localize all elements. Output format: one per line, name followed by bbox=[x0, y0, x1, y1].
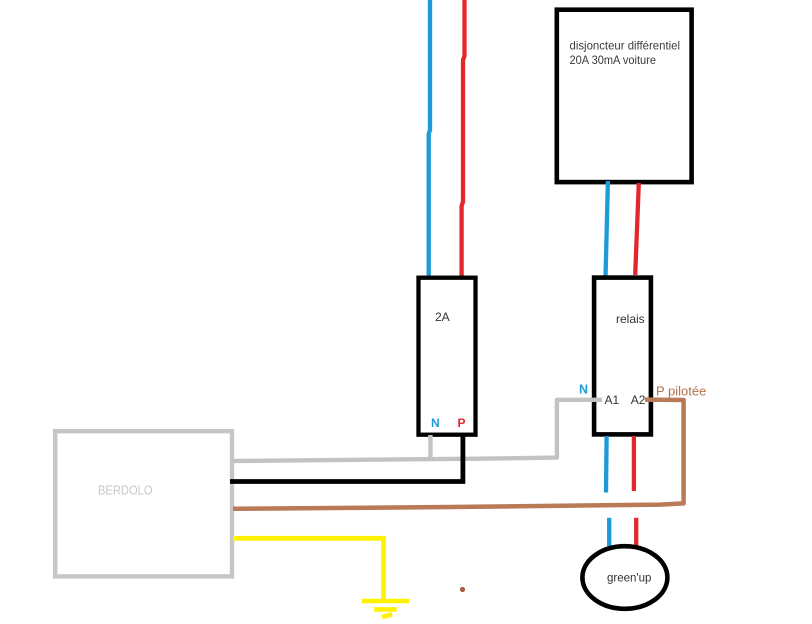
wire P (red) breaker to relay bbox=[635, 183, 639, 275]
wire N (blue) breaker to relay bbox=[606, 181, 608, 278]
svg-text:P pilotée: P pilotée bbox=[656, 384, 706, 399]
breaker U1: disjoncteur differentiel box bbox=[557, 10, 692, 182]
svg-text:relais: relais bbox=[616, 312, 645, 326]
svg-text:N: N bbox=[431, 416, 440, 430]
svg-text:A1: A1 bbox=[605, 393, 620, 407]
wire yellow: BERDOLO to earth bbox=[233, 538, 384, 600]
module M1: BERDOLO box bbox=[55, 431, 232, 576]
wire P (red) to green'up socket bbox=[634, 518, 638, 546]
wire black: BERDOLO to fuse P pin bbox=[230, 435, 463, 482]
socket: green'up outlet bbox=[582, 546, 667, 609]
label BERDOLO bbox=[98, 484, 153, 498]
wire N (blue) from supply to 2A fuse bbox=[429, 0, 430, 279]
wire gray: fuse N pin stub bbox=[428, 435, 432, 460]
svg-text:A2: A2 bbox=[631, 393, 646, 407]
svg-text:P: P bbox=[458, 416, 466, 430]
label green'up bbox=[607, 573, 651, 585]
label: disjoncteur differentiel 20A 30mA voiture bbox=[570, 39, 681, 68]
fuse F1: 2A box bbox=[419, 278, 476, 435]
wire N (blue) relay to junction bbox=[604, 436, 609, 493]
label P (red) on fuse bbox=[458, 416, 466, 430]
wire P (red) from supply to 2A fuse bbox=[462, 0, 465, 278]
svg-text:green'up: green'up bbox=[607, 573, 651, 585]
wire P (red) relay to junction bbox=[632, 436, 636, 491]
svg-text:N: N bbox=[579, 383, 588, 397]
wire N (blue) to green'up socket bbox=[607, 518, 611, 546]
pin A2 bbox=[631, 393, 646, 407]
ground symbol (yellow) bbox=[362, 601, 410, 617]
label N (blue) on fuse bbox=[431, 416, 440, 430]
node: stray brown dot bbox=[460, 587, 465, 592]
label relais bbox=[616, 312, 645, 326]
label P pilotee (brown) bbox=[656, 384, 706, 399]
svg-text:disjoncteur différentiel: disjoncteur différentiel bbox=[570, 39, 681, 53]
svg-text:2A: 2A bbox=[435, 310, 450, 324]
relay K1: relais box bbox=[594, 278, 651, 435]
pin A1 bbox=[605, 393, 620, 407]
wire brown: BERDOLO to relay A2 (P pilotee) bbox=[233, 400, 684, 509]
wire gray: BERDOLO to relay A1 bbox=[232, 400, 602, 461]
svg-text:20A 30mA voiture: 20A 30mA voiture bbox=[570, 53, 657, 67]
label 2A bbox=[435, 310, 450, 324]
label N (blue) at relay coil bbox=[579, 383, 588, 397]
svg-text:BERDOLO: BERDOLO bbox=[98, 484, 153, 498]
